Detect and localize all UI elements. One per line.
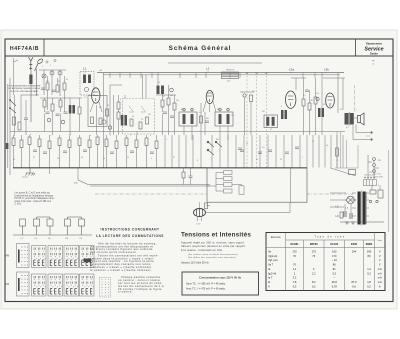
wire extra verticals <box>114 75 146 135</box>
resistor R20 <box>12 138 15 146</box>
wire V2 pins <box>203 101 216 112</box>
resistor R35 <box>91 117 94 124</box>
svg-text:Ig(2+4): Ig(2+4) <box>268 271 276 275</box>
trimmer det2 <box>316 97 319 100</box>
resistor R32 <box>125 138 128 146</box>
capacitor C2 <box>52 90 56 92</box>
resistor R8 <box>161 100 164 107</box>
rail L3a <box>291 77 306 79</box>
resistor R35 <box>155 141 158 149</box>
ratio det winding a <box>266 117 269 126</box>
svg-text:2k: 2k <box>127 157 129 159</box>
svg-text:a: a <box>14 135 15 137</box>
wire R22 leads <box>29 135 31 168</box>
svg-text:3,2: 3,2 <box>346 127 349 129</box>
svg-text:Dealer: Dealer <box>370 52 378 56</box>
wire AF links <box>207 173 242 192</box>
resistor R3 <box>63 83 66 90</box>
resistor R21 <box>20 140 23 148</box>
svg-text:C et D.: C et D. <box>15 203 23 206</box>
wire AV line <box>78 180 210 185</box>
resistor R2 <box>56 85 59 92</box>
chassis dash-dot long <box>95 193 354 195</box>
coil det a <box>281 110 284 119</box>
tube table header text <box>271 236 382 242</box>
wire speaker leads <box>353 118 370 140</box>
switch table band FM dots <box>22 275 94 294</box>
svg-text:INSTRUCTIONS CONCERNANT: INSTRUCTIONS CONCERNANT <box>101 228 160 232</box>
antenna FM dipole <box>35 58 44 71</box>
wire R27 leads <box>79 135 81 168</box>
svg-text:mA: mA <box>378 267 382 271</box>
resistor R31 <box>43 100 46 107</box>
tube table column rules <box>304 240 364 291</box>
instructions paragraph 1 <box>90 241 157 254</box>
svg-text:170: 170 <box>312 250 317 254</box>
tube V4 EL84 <box>326 93 335 108</box>
svg-text:1k: 1k <box>103 158 105 160</box>
svg-text:EZ80: EZ80 <box>351 243 358 246</box>
resistor R51 <box>205 203 208 209</box>
svg-text:L2: L2 <box>206 67 210 71</box>
svg-text:1,2: 1,2 <box>367 267 371 271</box>
capacitor C3 <box>24 118 28 120</box>
svg-text:à la masse ; intensités en mA): à la masse ; intensités en mA). <box>181 248 223 252</box>
svg-text:47: 47 <box>163 96 165 98</box>
trimmer det <box>243 94 246 97</box>
wire osc cluster <box>156 73 176 135</box>
wire antenna lead-in <box>14 58 19 95</box>
trimmer CT2 <box>50 71 54 75</box>
svg-text:e: e <box>90 135 91 137</box>
svg-text:FERRITE: FERRITE <box>226 70 235 72</box>
wire R24 leads <box>49 135 51 168</box>
svg-text:H4F74A/B: H4F74A/B <box>10 46 39 52</box>
svg-text:FM: FM <box>6 283 9 286</box>
capacitor C33 <box>240 150 244 152</box>
gang section b <box>141 106 146 112</box>
coil antenna <box>29 75 32 85</box>
svg-text:GO: GO <box>48 238 51 240</box>
capacitor row C10-C15 <box>33 150 154 154</box>
svg-text:5k: 5k <box>246 143 248 145</box>
switch table band AM ticks <box>34 248 92 256</box>
resistor R11 <box>200 116 203 123</box>
svg-text:Electrode: Electrode <box>271 236 281 239</box>
coil L1 winding a <box>83 75 86 84</box>
IF T1 winding a <box>183 114 186 124</box>
svg-text:Va T: Va T <box>268 263 274 267</box>
capacitor C17 <box>258 152 262 154</box>
svg-text:47: 47 <box>33 157 35 159</box>
front-end wires <box>39 70 66 112</box>
svg-text:Unit.: Unit. <box>378 239 383 242</box>
svg-text:V: V <box>379 250 381 254</box>
svg-text:50: 50 <box>132 116 134 118</box>
svg-text:0,78: 0,78 <box>332 284 338 288</box>
svg-text:d: d <box>70 134 71 136</box>
coil osc b <box>161 86 164 95</box>
dial lamp LP1 <box>347 196 355 204</box>
coil gang a <box>121 115 124 126</box>
resistor R30 <box>105 139 108 147</box>
coil osc a <box>157 86 160 95</box>
svg-text:0,1: 0,1 <box>199 112 202 114</box>
svg-text:(les débits des intensités son: (les débits des intensités sont mesurées… <box>188 256 236 259</box>
TR1 side leads <box>352 193 369 216</box>
capacitor C1 <box>41 88 45 90</box>
resistor R26 <box>68 140 71 148</box>
capacitor C34 <box>268 150 272 152</box>
svg-text:4: 4 <box>120 99 121 101</box>
wire mid horizontal <box>10 131 345 133</box>
svg-text:50: 50 <box>66 79 68 81</box>
svg-text:25: 25 <box>57 158 59 160</box>
antenna terminal b <box>54 59 56 61</box>
terminal PU2 <box>373 170 376 173</box>
AGC arrows <box>246 72 267 74</box>
wire box risers <box>291 168 356 202</box>
resistor R4 <box>13 117 16 125</box>
trimmer gang2 <box>108 126 111 129</box>
coil mixer b <box>72 105 75 114</box>
terminal post b <box>370 138 372 140</box>
wire lower return <box>90 185 210 187</box>
svg-text:87,0: 87,0 <box>351 280 357 284</box>
resistor R49 <box>239 186 244 195</box>
svg-text:h: h <box>150 135 151 137</box>
tube table frame <box>266 233 385 291</box>
svg-text:(les valeurs entre crochets so: (les valeurs entre crochets sont mesurée… <box>188 253 238 256</box>
resistor R45 <box>224 171 233 175</box>
svg-text:c.m.: c.m. <box>206 72 210 74</box>
tuning indicator V5 EM84 <box>194 209 206 217</box>
terminal post a <box>370 131 372 133</box>
svg-text:1,8: 1,8 <box>367 280 371 284</box>
loudspeaker LS <box>358 113 365 125</box>
AF section box <box>207 168 307 202</box>
svg-text:Tensions et Intensités: Tensions et Intensités <box>181 232 251 239</box>
switch table band AM boxes <box>17 244 95 268</box>
resistor R31 <box>115 141 118 149</box>
svg-text:c.m.: c.m. <box>324 72 328 74</box>
note antenna text <box>9 85 41 93</box>
resistor R19 <box>146 117 149 124</box>
svg-text:3,2: 3,2 <box>293 276 297 280</box>
svg-text:7,8: 7,8 <box>293 280 297 284</box>
svg-text:0,2: 0,2 <box>367 284 371 288</box>
resistor R12 <box>250 95 253 102</box>
psu small parts <box>369 190 383 203</box>
pushbutton tick labels <box>21 238 83 240</box>
wire antenna down <box>31 69 37 122</box>
svg-text:Vg(2+4): Vg(2+4) <box>268 254 277 258</box>
capacitor C7 <box>305 90 309 92</box>
resistor R40 <box>336 148 339 156</box>
coil L1 winding b <box>88 75 91 84</box>
gang section a <box>129 106 134 112</box>
note adaptor text <box>15 192 55 206</box>
svg-text:c.m.: c.m. <box>83 72 87 74</box>
svg-text:Appareil réglé sur 300 m. envi: Appareil réglé sur 300 m. environ, sans … <box>181 241 245 245</box>
svg-text:PO 65 N ; point B de l'adaptat: PO 65 N ; point B de l'adaptateur amé- <box>15 197 55 200</box>
svg-text:50k: 50k <box>206 118 209 120</box>
wire R34 leads <box>146 135 148 168</box>
wire EM84 leads <box>200 202 291 212</box>
wire left column <box>8 78 15 168</box>
svg-text:Consommation sous 110 V 50 Hz: Consommation sous 110 V 50 Hz <box>199 276 242 280</box>
resistor R17 <box>130 119 133 126</box>
svg-text:L1: L1 <box>83 67 87 71</box>
resistor R48 <box>224 189 233 193</box>
capacitor C6 <box>205 121 209 123</box>
svg-text:5: 5 <box>242 92 243 94</box>
svg-text:L3b: L3b <box>324 68 329 72</box>
resistor R22 <box>28 137 31 145</box>
trimmer pad2 <box>61 120 65 124</box>
antenna terminal a <box>46 61 48 63</box>
svg-text:Type de tube: Type de tube <box>314 236 345 239</box>
tube V1 ECC85 <box>92 88 100 103</box>
switch table band FM contacts <box>34 289 93 295</box>
svg-text:ci-contre.: ci-contre. <box>118 290 133 294</box>
svg-text:masse: masse <box>22 177 29 179</box>
TR1 core lines <box>361 191 366 226</box>
switch cluster FM-AM <box>207 141 222 155</box>
wire R32 leads <box>126 135 128 168</box>
svg-text:32: 32 <box>280 159 282 161</box>
resistor R10 <box>173 103 176 110</box>
svg-text:A: A <box>379 284 381 288</box>
tensions paragraph <box>181 241 245 252</box>
svg-text:20: 20 <box>107 105 109 107</box>
ferrite rod L2 <box>222 70 239 83</box>
mains terminals <box>373 158 376 161</box>
svg-text:V: V <box>379 263 381 267</box>
svg-text:2,5: 2,5 <box>372 64 375 66</box>
svg-text:M1: M1 <box>181 109 184 111</box>
wire bus risers <box>50 168 79 180</box>
power transformer TR1 secondary <box>363 192 366 225</box>
svg-text:ALT 110: ALT 110 <box>374 173 381 176</box>
wire R35 leads <box>156 135 158 168</box>
svg-text:M3: M3 <box>262 111 265 113</box>
resistor R14 <box>308 103 311 110</box>
resistor R33 <box>59 100 62 107</box>
capacitor C31 <box>56 114 60 116</box>
resistor R5 <box>18 122 21 130</box>
switch table band AM contacts <box>34 260 93 266</box>
trimmer CT1 <box>42 74 46 78</box>
svg-text:Sans TC : I = 395 mA.: Sans TC : I = 395 mA. P = 40 watts. <box>186 283 226 286</box>
pushbutton bank <box>13 217 92 235</box>
coil det2 b <box>322 108 325 117</box>
resistor R23 <box>38 139 41 147</box>
wire IF stage <box>184 103 228 140</box>
svg-text:mA: mA <box>378 276 382 280</box>
ground symbols psu <box>345 222 355 224</box>
wire right edge <box>335 132 389 233</box>
svg-text:170: 170 <box>292 250 297 254</box>
resistor R34 <box>145 138 148 146</box>
IF T2 winding b <box>227 114 230 124</box>
svg-text:NOTICE SPECIALE A PART: NOTICE SPECIALE A PART <box>11 90 39 93</box>
svg-text:8: 8 <box>281 106 282 108</box>
wire front lower <box>40 98 82 135</box>
resistor R28 <box>88 140 91 148</box>
switch table band FM ticks <box>34 276 92 284</box>
wire left links <box>10 95 39 175</box>
coil gang b <box>124 115 127 126</box>
svg-text:L4: L4 <box>158 82 160 84</box>
tuning gang CV <box>123 99 155 135</box>
wire R25 leads <box>59 135 61 168</box>
svg-text:2k: 2k <box>58 81 60 83</box>
svg-text:9,2: 9,2 <box>332 271 336 275</box>
svg-text:0,1: 0,1 <box>84 97 87 99</box>
svg-text:50: 50 <box>326 145 328 147</box>
svg-text:100: 100 <box>170 95 173 97</box>
wire audio couple <box>296 78 343 135</box>
fuse box <box>349 170 356 175</box>
capacitor C36 <box>295 147 299 149</box>
switch band AM engaged contact <box>84 259 92 263</box>
capacitor C30 <box>46 112 50 114</box>
wire R29 leads <box>97 135 99 168</box>
svg-text:branchement de l'adaptateur ét: branchement de l'adaptateur étranger <box>15 194 54 197</box>
antenna AM <box>29 57 33 70</box>
svg-text:Vg1 pos.: Vg1 pos. <box>268 258 279 262</box>
svg-text:6,8: 6,8 <box>99 107 102 109</box>
wire gang <box>104 73 123 168</box>
resistor R6 <box>117 102 120 109</box>
svg-text:– 10: – 10 <box>332 258 338 262</box>
capacitor C40 edge <box>6 143 9 149</box>
svg-text:7: 7 <box>302 157 303 159</box>
svg-text:5k: 5k <box>340 109 342 111</box>
svg-text:c.m.: c.m. <box>289 72 293 74</box>
svg-text:AM: AM <box>6 255 10 258</box>
svg-text:L3a: L3a <box>289 68 294 72</box>
ground bus <box>13 167 307 169</box>
capacitor C32 <box>64 112 68 114</box>
capacitor C18 <box>189 176 193 178</box>
wire band stubs <box>110 73 338 78</box>
svg-text:Schéma Général: Schéma Général <box>169 45 232 52</box>
svg-text:ECL82: ECL82 <box>330 243 338 246</box>
instructions title <box>96 228 164 239</box>
IF T2 trimmers <box>219 108 222 111</box>
svg-text:2,2: 2,2 <box>312 271 316 275</box>
resistor R50 <box>340 212 343 218</box>
label HP terminals <box>372 61 375 66</box>
capacitor C21 <box>350 213 352 219</box>
svg-text:170: 170 <box>332 254 337 258</box>
tube table header rules <box>266 233 385 291</box>
resistor R34 <box>78 107 81 114</box>
tube V2 ECH81 <box>206 90 213 103</box>
capacitor C20 <box>344 211 346 217</box>
svg-text:Les points B, C et D sont reli: Les points B, C et D sont reliés au <box>15 192 51 195</box>
svg-text:5: 5 <box>151 158 152 160</box>
svg-text:160: 160 <box>332 250 337 254</box>
coil det2 a <box>318 108 321 117</box>
EM84 heater leads <box>198 216 202 221</box>
wire psu links <box>345 155 380 213</box>
FM tuner unit box <box>88 96 107 127</box>
svg-text:mA: mA <box>378 280 382 284</box>
rail L3b <box>323 77 345 79</box>
wire R28 leads <box>89 135 91 168</box>
svg-text:240: 240 <box>367 250 372 254</box>
wires V1 pins <box>90 102 102 135</box>
svg-text:2: 2 <box>50 65 51 67</box>
wire det drops <box>184 168 191 185</box>
capacitor C35 <box>285 152 289 154</box>
svg-text:47k: 47k <box>316 93 319 95</box>
rail +B lower <box>103 74 340 76</box>
trimmer osc <box>170 88 174 92</box>
svg-text:0,1: 0,1 <box>262 147 265 149</box>
AGC dashed lines <box>247 72 266 168</box>
svg-text:50: 50 <box>81 157 83 159</box>
resistor R32 <box>51 104 54 111</box>
coil box L1 <box>80 72 94 96</box>
resistor R16 <box>106 109 109 116</box>
output transformer T4 <box>345 112 354 126</box>
svg-text:Avec TC : I = 475 mA.: Avec TC : I = 475 mA. P = 45 watts. <box>186 288 226 291</box>
consommation box <box>182 272 259 295</box>
wire vertical drops <box>165 135 343 168</box>
resistor R29 <box>96 137 99 145</box>
svg-text:0,6: 0,6 <box>352 284 356 288</box>
ratio det winding b <box>272 117 275 126</box>
wire R33 leads <box>136 135 138 168</box>
IF transformer T2 box <box>215 112 233 126</box>
legend contact grid <box>100 278 111 298</box>
svg-text:ricain N de relier : lettres D: ricain N de relier : lettres D NB vers <box>15 200 52 203</box>
coil mixer a <box>69 105 72 114</box>
svg-text:FM: FM <box>66 238 69 240</box>
svg-text:b: b <box>30 134 31 136</box>
resistor R27 <box>78 138 81 146</box>
IF T1 trimmers <box>183 108 186 111</box>
capacitor C5 <box>170 116 174 118</box>
svg-text:245V 50Hz: 245V 50Hz <box>374 177 383 179</box>
svg-text:EM84: EM84 <box>366 243 373 246</box>
svg-text:0,5: 0,5 <box>303 95 306 97</box>
title bar divider right <box>355 39 357 56</box>
coil det b <box>285 110 288 119</box>
svg-text:47k: 47k <box>46 81 49 83</box>
svg-text:16: 16 <box>256 159 258 161</box>
instructions paragraph 2 <box>90 253 159 272</box>
resistor R13 <box>302 99 305 106</box>
resistor R24 <box>48 141 51 149</box>
svg-text:PU: PU <box>378 160 381 162</box>
resistor R25 <box>58 138 61 146</box>
svg-text:25k: 25k <box>176 100 179 102</box>
chassis dash-dot right <box>354 85 356 113</box>
svg-text:47: 47 <box>173 157 175 159</box>
wire R23 leads <box>39 135 41 168</box>
svg-text:Secteur 110 Volts 50 Hz.: Secteur 110 Volts 50 Hz. <box>181 261 210 265</box>
svg-text:ECH81: ECH81 <box>290 243 299 246</box>
svg-text:47: 47 <box>270 129 272 131</box>
svg-text:8: 8 <box>197 160 198 162</box>
svg-text:mA: mA <box>378 271 382 275</box>
tube V3 EBF89 <box>286 91 296 108</box>
